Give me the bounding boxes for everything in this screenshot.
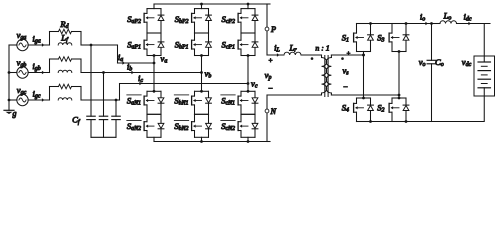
wire source v_gb to bus <box>9 72 17 74</box>
switch S_aP1 <box>127 33 164 56</box>
wire leg c midpoint node v_c <box>247 54 250 93</box>
switch S_4 <box>342 98 374 122</box>
svg-text:vdc: vdc <box>462 57 472 68</box>
wire P rail <box>154 3 270 6</box>
label C_f <box>72 115 81 126</box>
svg-text:Lo: Lo <box>443 10 452 21</box>
label v_b <box>205 69 212 80</box>
label n : 1 <box>315 44 329 53</box>
svg-text:ia: ia <box>118 52 123 63</box>
svg-text:+: + <box>268 57 273 65</box>
ground g <box>4 109 17 118</box>
svg-text:Lf: Lf <box>60 33 69 44</box>
svg-text:S2: S2 <box>377 103 384 114</box>
svg-text:n : 1: n : 1 <box>315 44 329 53</box>
inductor L_f phase b <box>58 70 72 72</box>
svg-text:SbN2: SbN2 <box>174 121 188 132</box>
svg-text:vo: vo <box>419 57 426 68</box>
polarity dot primary <box>311 57 314 60</box>
transformer secondary winding <box>326 55 331 95</box>
wire filter output phase c <box>81 99 120 101</box>
svg-text:ScP2: ScP2 <box>222 14 236 25</box>
ac source v_gb <box>17 58 29 79</box>
svg-text:igb: igb <box>32 61 40 72</box>
svg-text:SbN1: SbN1 <box>174 95 188 106</box>
ac source v_ga <box>17 30 29 50</box>
svg-text:−: − <box>268 84 273 93</box>
svg-text:igc: igc <box>33 88 41 99</box>
wire H-bridge top rail <box>357 22 432 25</box>
svg-text:+: + <box>346 51 350 58</box>
label R_d <box>59 19 68 30</box>
wire phase a jog down <box>92 45 118 63</box>
wire leg c top stub <box>247 4 249 9</box>
svg-text:SaN1: SaN1 <box>127 95 141 106</box>
svg-text:vc: vc <box>251 79 258 90</box>
wire to load <box>457 24 485 57</box>
capacitor C_f phase b <box>99 71 107 137</box>
inductor L_o <box>432 10 457 23</box>
battery load v_dc <box>474 56 495 96</box>
label v_o <box>419 57 426 68</box>
svg-text:vp: vp <box>265 70 272 81</box>
wire N rail <box>154 140 270 143</box>
svg-text:iga: iga <box>32 33 40 44</box>
label v_a <box>161 54 168 65</box>
svg-text:Cf: Cf <box>72 115 81 126</box>
svg-text:io: io <box>420 12 425 23</box>
svg-text:vgb: vgb <box>17 58 27 69</box>
switch S_aP2 <box>127 9 164 33</box>
wire leg a bottom stub <box>153 137 155 141</box>
svg-text:vgc: vgc <box>17 85 27 96</box>
svg-text:SbP2: SbP2 <box>175 14 189 25</box>
svg-text:ScN2: ScN2 <box>221 121 235 132</box>
wire capacitor bottom bar <box>91 136 116 138</box>
label v_p with polarity <box>265 57 274 94</box>
svg-text:idc: idc <box>464 12 472 23</box>
transformer core <box>325 56 328 97</box>
svg-text:P: P <box>270 25 276 34</box>
transformer primary winding <box>322 55 327 95</box>
inductor L_r <box>284 43 322 56</box>
wire source v_ga to bus <box>9 44 17 46</box>
inductor L_f phase c <box>58 98 72 100</box>
wire leg a top stub <box>153 4 155 9</box>
label v_s with polarity <box>342 51 350 92</box>
wire i_c to node v_c <box>120 73 249 85</box>
wire source v_ga to filter with current i_ga <box>28 33 49 46</box>
switch S_aN2 <box>127 114 164 137</box>
wire damping loop phase c <box>50 87 82 101</box>
node P <box>265 4 276 55</box>
switch S_bP1 <box>175 33 212 56</box>
wire primary top with current i_L <box>267 43 283 57</box>
svg-text:N: N <box>270 107 277 116</box>
wire load to bottom rail <box>432 96 485 122</box>
wire phase b to node v_b <box>104 62 202 75</box>
switch S_bN2 <box>174 114 211 137</box>
svg-text:SaP2: SaP2 <box>127 14 141 25</box>
resistor R_d phase c <box>59 84 72 89</box>
svg-text:S4: S4 <box>342 103 349 114</box>
wire source v_gb to filter with current i_gb <box>28 61 49 74</box>
wire secondary top <box>331 54 365 57</box>
switch S_cP2 <box>222 9 258 33</box>
polarity dot secondary <box>341 57 344 60</box>
svg-text:SbP1: SbP1 <box>175 39 189 50</box>
svg-text:ScP1: ScP1 <box>222 39 236 50</box>
resistor R_d phase a <box>59 29 72 34</box>
svg-text:g: g <box>13 109 17 118</box>
switch S_cP1 <box>222 33 258 56</box>
switch S_1 <box>342 24 374 52</box>
label v_c <box>251 79 258 90</box>
wire output top with current i_o <box>420 12 433 26</box>
svg-text:vga: vga <box>17 30 27 41</box>
switch S_cN2 <box>221 114 258 137</box>
wire leg b bottom stub <box>201 137 203 141</box>
wire leg a midpoint node v_a <box>153 54 156 93</box>
wire H-bridge leg 363.5 midpoint <box>362 52 365 100</box>
label L_f <box>60 33 69 44</box>
wire leg b top stub <box>201 4 203 9</box>
svg-text:ScN1: ScN1 <box>221 95 235 106</box>
switch S_2 <box>377 98 409 122</box>
resistor R_d phase b <box>59 57 72 62</box>
wire phase c jog up <box>116 84 120 101</box>
capacitor C_o branch <box>427 24 436 122</box>
switch S_bP2 <box>175 9 212 33</box>
svg-text:−: − <box>343 83 348 92</box>
svg-text:vb: vb <box>205 69 212 80</box>
svg-text:S1: S1 <box>342 32 349 43</box>
label C_o <box>435 57 444 68</box>
switch S_aN1 <box>127 91 164 114</box>
svg-text:S3: S3 <box>377 32 384 43</box>
svg-text:ic: ic <box>138 73 143 84</box>
capacitor C_f phase c <box>112 99 120 138</box>
inductor L_f phase a <box>58 43 72 45</box>
wire primary bottom <box>267 94 322 96</box>
wire filter output phase a <box>81 44 92 46</box>
wire leg b midpoint node v_b <box>200 54 203 93</box>
svg-text:va: va <box>161 54 168 65</box>
switch S_3 <box>377 24 409 52</box>
node N <box>265 95 276 142</box>
wire damping loop phase b <box>50 59 82 73</box>
svg-text:Rd: Rd <box>59 19 68 30</box>
wire source v_gc to filter with current i_gc <box>28 88 49 101</box>
wire H-bridge bottom rail <box>357 120 432 123</box>
ac source v_gc <box>17 85 28 106</box>
svg-text:Co: Co <box>435 57 444 68</box>
wire i_dc to load <box>457 12 491 26</box>
svg-text:Lr: Lr <box>288 43 297 54</box>
wire filter output phase b <box>81 72 104 74</box>
wire H-bridge leg 399.0 midpoint <box>398 50 401 99</box>
wire damping loop phase a <box>50 32 82 46</box>
label v_dc <box>462 57 472 68</box>
wire left ground bus <box>8 45 11 110</box>
wire secondary bottom <box>331 94 400 97</box>
switch S_cN1 <box>221 91 258 114</box>
svg-text:SaP1: SaP1 <box>127 39 141 50</box>
wire source v_gc to bus <box>9 99 17 101</box>
wire leg c bottom stub <box>247 137 249 141</box>
svg-text:vs: vs <box>342 66 349 77</box>
capacitor C_f phase a <box>87 44 95 138</box>
wire P rail to node P <box>267 3 270 5</box>
svg-text:iL: iL <box>274 43 280 54</box>
switch S_bN1 <box>174 91 211 114</box>
wire i_a to node v_a <box>118 52 155 65</box>
svg-text:SaN2: SaN2 <box>127 121 141 132</box>
